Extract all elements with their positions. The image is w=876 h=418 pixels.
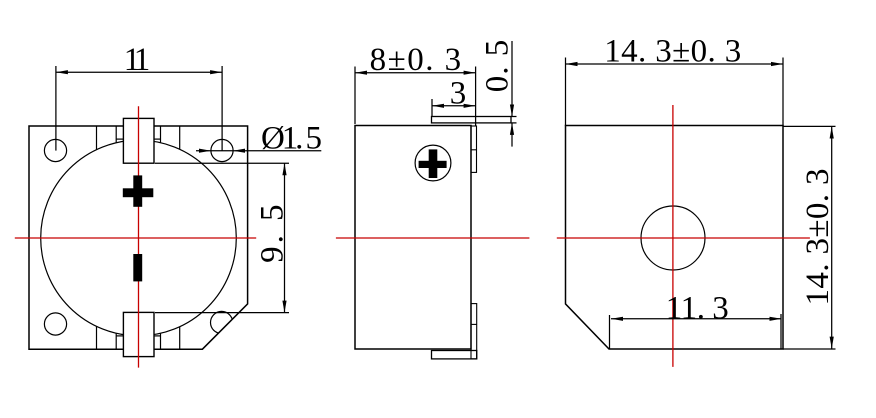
svg-text:0. 5: 0. 5 <box>479 40 515 93</box>
svg-text:3: 3 <box>450 76 467 112</box>
svg-text:8±0. 3: 8±0. 3 <box>370 42 462 78</box>
svg-text:14. 3±0. 3: 14. 3±0. 3 <box>604 34 741 70</box>
svg-text:14. 3±0. 3: 14. 3±0. 3 <box>800 169 836 306</box>
svg-text:11. 3: 11. 3 <box>666 290 729 326</box>
svg-text:11: 11 <box>124 42 151 78</box>
svg-text:Ø1. 5: Ø1. 5 <box>261 121 322 157</box>
